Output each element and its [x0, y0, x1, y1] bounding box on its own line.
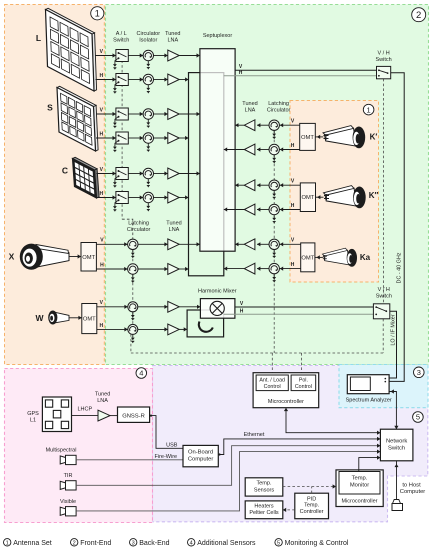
tuned LNA C-V: [168, 168, 179, 179]
svg-text:A / L: A / L: [116, 31, 127, 37]
tuned LNA Ka-V: [244, 239, 255, 250]
svg-text:4: 4: [190, 540, 193, 546]
tuned LNA S-V: [168, 109, 179, 120]
OMT Ka: [301, 243, 315, 272]
tuned LNA Ka-H: [244, 263, 255, 274]
svg-text:4: 4: [139, 369, 143, 378]
tuned LNA W-V: [168, 301, 179, 312]
wire switch to circulator L-H: [128, 79, 143, 81]
wire circulator to LNA W-V: [138, 306, 168, 308]
svg-text:Computer: Computer: [188, 457, 214, 463]
svg-text:LO / IF Mixer: LO / IF Mixer: [391, 314, 397, 345]
svg-text:PID: PID: [307, 496, 316, 502]
svg-text:Latching: Latching: [128, 221, 149, 227]
tuned LNA L-V: [168, 50, 179, 61]
wire antenna to switch L-V: [95, 55, 116, 57]
svg-text:Network: Network: [386, 439, 407, 445]
svg-text:Circulator: Circulator: [127, 227, 151, 233]
wire GPS to LNA: [72, 415, 99, 417]
latching circulator Ka-V: [269, 239, 279, 249]
wire circulator to LNA X-H: [138, 268, 168, 270]
wire circulator to OMT Ka-H: [279, 268, 300, 270]
svg-text:K′: K′: [370, 133, 378, 142]
wire switch to circulator C-H: [128, 197, 143, 199]
wire circulator to LNA S-V: [154, 113, 168, 115]
badge 3 back-end: [414, 367, 425, 378]
A/L switch L-H: [116, 74, 128, 86]
wire TIR to network switch: [76, 446, 380, 486]
region 3 Back-End (blue): [339, 365, 428, 408]
tuned LNA K2-V: [244, 180, 255, 191]
wire spectrum analyzer to network switch: [389, 392, 396, 430]
svg-text:LNA: LNA: [97, 398, 108, 404]
tuned LNA K1-V: [244, 120, 255, 131]
svg-text:V / H: V / H: [377, 51, 389, 57]
wire V/H switch to LO/IF line: [389, 311, 396, 378]
wire circulator to OMT K2-V: [279, 184, 300, 186]
control drop to Pol Control (dashed): [301, 353, 303, 374]
wire OMT to horn K2: [316, 196, 324, 198]
svg-text:Sensors: Sensors: [254, 487, 274, 493]
wire OMT to circulator X-H: [96, 268, 127, 270]
svg-text:Antenna Set: Antenna Set: [13, 540, 52, 547]
latching circulator X-H: [128, 264, 138, 274]
tuned LNA X-V: [168, 239, 179, 250]
antenna array C: [95, 169, 100, 198]
svg-text:H: H: [100, 262, 104, 268]
svg-text:5: 5: [277, 540, 280, 546]
svg-text:GPS: GPS: [27, 411, 39, 417]
wire LNA to mixer W-H: [179, 328, 187, 330]
tuned LNA L-H: [168, 74, 179, 85]
tuned LNA X-H: [168, 264, 179, 275]
svg-text:Septuplexor: Septuplexor: [203, 33, 233, 39]
svg-text:3: 3: [417, 368, 421, 377]
wire switch to circulator C-V: [128, 173, 143, 175]
wire antenna to switch L-H: [96, 79, 116, 81]
OMT K2: [300, 183, 315, 212]
circulator isolator C-H: [143, 192, 153, 202]
latching circulator control line K-band (dashed): [273, 125, 275, 353]
wire LNA to septuplexor L-V: [179, 55, 200, 57]
septuplexor back box (H): [189, 73, 224, 276]
svg-text:Switch: Switch: [388, 446, 405, 452]
latching circulator K2-H: [269, 204, 279, 214]
svg-text:Back-End: Back-End: [139, 540, 169, 547]
horn antenna X: [37, 247, 69, 268]
wire mixer H output: [224, 313, 374, 315]
wire LNA to circulator K1-H: [257, 149, 269, 151]
svg-text:Temp.: Temp.: [257, 481, 272, 487]
wire septuplexor V output: [235, 69, 376, 71]
wire antenna to switch S-V: [97, 113, 116, 115]
latching circulator X-V: [128, 239, 138, 249]
svg-text:H: H: [99, 73, 103, 79]
wire microcontroller to network switch: [286, 408, 380, 433]
legend 5 Monitoring and Control: [275, 539, 282, 546]
Pol Control box: [291, 375, 316, 391]
svg-text:H: H: [99, 323, 103, 329]
wire circulator to OMT Ka-V: [279, 243, 300, 245]
svg-text:Temp.: Temp.: [352, 476, 368, 482]
camera TIR: [66, 481, 77, 490]
wire LNA to circulator K1-V: [257, 124, 269, 126]
svg-text:GNSS-R: GNSS-R: [122, 414, 145, 420]
svg-text:H: H: [99, 191, 103, 197]
wire circulator to LNA W-H: [138, 328, 168, 330]
svg-text:Isolator: Isolator: [139, 37, 157, 43]
circulator isolator S-V: [143, 109, 153, 119]
latching circulator W-V: [128, 302, 138, 312]
V/H switch control line (dashed): [382, 79, 384, 304]
tuned LNA S-H: [168, 133, 179, 144]
latching circulator W-H: [128, 324, 138, 334]
tuned LNA W-H: [168, 324, 179, 335]
PID temp controller box: [295, 493, 329, 519]
microcontroller antenna/pol box: [253, 373, 319, 408]
wire LNA to circulator Ka-H: [257, 268, 269, 270]
wire LNA to mixer W-V: [179, 306, 200, 308]
wire W horn to OMT: [69, 317, 82, 319]
wire temp sensors to microcontroller (dashed): [283, 486, 336, 488]
on-board computer: [183, 445, 218, 466]
svg-text:Tuned: Tuned: [165, 31, 180, 37]
svg-text:Heaters: Heaters: [254, 504, 274, 510]
svg-text:Microcontroller: Microcontroller: [268, 399, 304, 405]
svg-text:Ant. / Load: Ant. / Load: [259, 377, 285, 383]
svg-text:Fire-Wire: Fire-Wire: [154, 454, 177, 460]
latching circulator K2-V: [269, 180, 279, 190]
legend 3 Back-End: [130, 539, 137, 546]
svg-text:3: 3: [132, 540, 135, 546]
svg-text:Monitor: Monitor: [350, 483, 369, 489]
V/H switch top: [377, 66, 391, 78]
Ant/Load Control box: [256, 375, 288, 391]
svg-text:2: 2: [416, 10, 421, 21]
antenna array S: [94, 105, 99, 151]
wire LNA to septuplexor C-H: [179, 197, 188, 199]
control bus (dashed): [131, 352, 383, 354]
A/L switch S-V: [116, 108, 128, 120]
wire LNA to GNSS-R: [109, 415, 118, 417]
svg-text:OMT: OMT: [83, 317, 96, 323]
wire LNA to septuplexor S-H: [179, 137, 188, 139]
svg-text:to Host: to Host: [402, 483, 421, 489]
svg-text:OMT: OMT: [301, 195, 314, 201]
region 5 Monitoring and Control (lavender): [153, 366, 428, 522]
wire OMT to horn Ka: [315, 256, 323, 258]
svg-text:L: L: [36, 33, 41, 43]
svg-text:5: 5: [416, 413, 420, 422]
wire Visible to network switch: [76, 452, 380, 511]
wire circulator to LNA L-V: [154, 55, 168, 57]
camera Visible: [66, 507, 77, 516]
region 2 Front-End (green): [106, 5, 429, 365]
wire OMT to horn K1: [315, 136, 323, 138]
svg-text:H: H: [291, 143, 295, 149]
badge 4 additional sensors: [136, 368, 147, 379]
wire circulator to LNA L-H: [154, 79, 168, 81]
wire temp monitor to network switch: [359, 458, 381, 472]
svg-text:On-Board: On-Board: [188, 450, 213, 456]
wire V/H switch to DC-40GHz line: [389, 73, 404, 382]
svg-text:Spectrum Analyzer: Spectrum Analyzer: [346, 398, 392, 404]
region 1 Antenna Set (orange): [5, 5, 106, 365]
wire switch to circulator S-V: [128, 113, 143, 115]
svg-text:H: H: [291, 262, 295, 268]
svg-text:USB: USB: [166, 443, 178, 449]
network switch: [380, 429, 413, 461]
wire circulator to OMT K1-H: [279, 149, 299, 151]
wire circulator to LNA S-H: [154, 137, 168, 139]
mixer symbol: [210, 301, 224, 315]
harmonic mixer waveguide bend: [199, 322, 213, 332]
wire LNA to septuplexor L-H: [179, 79, 188, 81]
wire antenna to switch S-H: [96, 137, 116, 139]
svg-text:W: W: [35, 313, 44, 323]
svg-text:Harmonic Mixer: Harmonic Mixer: [198, 288, 237, 294]
svg-text:Computer: Computer: [400, 489, 426, 495]
badge 2 front-end: [412, 8, 426, 22]
wire switch to circulator S-H: [128, 137, 143, 139]
temp monitor microcontroller box: [336, 470, 383, 507]
circulator isolator S-H: [143, 133, 153, 143]
tuned LNA GPS: [98, 410, 110, 421]
wire PID controller to heaters (dashed): [283, 509, 295, 511]
svg-text:Control: Control: [295, 384, 312, 390]
svg-text:2: 2: [73, 540, 76, 546]
svg-text:LNA: LNA: [167, 37, 178, 43]
svg-text:LNA: LNA: [169, 227, 180, 233]
tuned LNA K1-H: [244, 144, 255, 155]
A/L switch S-H: [116, 132, 128, 144]
wire LNA to septuplexor X-V: [179, 243, 200, 245]
wire septuplexor H output: [224, 75, 377, 77]
wire LNA to septuplexor X-H: [179, 268, 188, 270]
svg-text:Switch: Switch: [376, 293, 392, 299]
wire septuplexor to LNA K1-V: [235, 124, 244, 126]
svg-text:OMT: OMT: [301, 135, 314, 141]
svg-text:Control: Control: [264, 384, 281, 390]
wire mixer V output: [235, 306, 374, 308]
svg-text:Microcontroller: Microcontroller: [341, 499, 377, 505]
A/L switch control line (dashed): [121, 56, 123, 220]
wire circulator to LNA C-V: [154, 173, 168, 175]
tuned LNA K2-H: [244, 204, 255, 215]
svg-text:S: S: [47, 103, 53, 113]
control drop to Ant/Load Control (dashed): [271, 353, 273, 374]
svg-text:Latching: Latching: [268, 101, 289, 107]
wire antenna to switch C-V: [97, 173, 116, 175]
wire circulator to OMT K2-H: [279, 209, 300, 211]
wire circulator to OMT K1-V: [279, 124, 299, 126]
svg-text:K″: K″: [369, 191, 379, 200]
wire septuplexor to LNA Ka-V: [235, 243, 244, 245]
svg-text:Peltier Cells: Peltier Cells: [249, 510, 279, 516]
svg-text:Circulator: Circulator: [137, 31, 161, 37]
svg-text:Multispectral: Multispectral: [46, 447, 77, 453]
wire multispectral to on-board computer (Fire-Wire): [76, 459, 183, 461]
svg-text:C: C: [62, 166, 68, 176]
svg-text:Tuned: Tuned: [95, 392, 110, 398]
wire switch to circulator L-V: [128, 55, 143, 57]
wire circulator to LNA X-V: [138, 243, 168, 245]
wire OMT to circulator W-V: [97, 306, 128, 308]
wire LNA to septuplexor C-V: [179, 173, 200, 175]
svg-text:OMT: OMT: [82, 255, 95, 261]
svg-text:DC - 40 GHz: DC - 40 GHz: [396, 252, 402, 283]
wire LNA to septuplexor S-V: [179, 113, 200, 115]
camera multispectral: [66, 455, 77, 464]
svg-text:Additional Sensors: Additional Sensors: [197, 540, 256, 547]
horn antenna W: [55, 312, 69, 323]
V/H switch bottom: [373, 304, 389, 319]
tuned LNA C-H: [168, 192, 179, 203]
latching circulator K1-V: [269, 120, 279, 130]
svg-text:H: H: [239, 70, 243, 76]
wire network switch to host computer: [396, 461, 398, 500]
svg-text:Tuned: Tuned: [166, 221, 181, 227]
A/L switch C-H: [116, 192, 128, 204]
wire septuplexor to LNA Ka-H: [224, 268, 245, 270]
legend 2 Front-End: [71, 539, 78, 546]
septuplexor front box (V): [200, 49, 235, 252]
host computer connector: [393, 500, 401, 504]
latching circulator control line X/W (dashed): [132, 244, 134, 329]
wire X horn to OMT: [70, 256, 82, 258]
svg-text:Front-End: Front-End: [80, 540, 111, 547]
svg-text:OMT: OMT: [301, 255, 314, 261]
svg-text:Controller: Controller: [300, 509, 324, 515]
legend 1 Antenna Set: [3, 539, 10, 546]
wire LNA to circulator Ka-V: [257, 243, 269, 245]
svg-text:Switch: Switch: [375, 57, 391, 63]
svg-text:Monitoring & Control: Monitoring & Control: [285, 540, 349, 547]
spectrum analyzer: [347, 375, 389, 394]
svg-text:Ka: Ka: [360, 253, 371, 262]
A/L switch L-V: [116, 50, 128, 62]
wire OMT to circulator X-V: [96, 243, 127, 245]
wire septuplexor to LNA K2-H: [224, 209, 245, 211]
svg-text:Pol.: Pol.: [299, 377, 308, 383]
A/L switch C-V: [116, 168, 128, 180]
harmonic mixer back box: [187, 310, 224, 337]
temp sensors box: [245, 478, 283, 496]
horn antenna K-second: [324, 186, 366, 209]
region 4 Additional Sensors (pink): [5, 369, 153, 523]
antenna array L: [92, 33, 97, 91]
region 1b K-band antenna subset (orange): [290, 101, 379, 283]
svg-text:TIR: TIR: [64, 473, 73, 479]
svg-text:Circulator: Circulator: [267, 108, 291, 114]
harmonic mixer front box: [200, 299, 235, 319]
wire PID controller tap (dashed): [311, 487, 313, 494]
OMT K1: [300, 123, 316, 150]
wire ethernet OBC to network switch: [218, 439, 380, 455]
circulator isolator L-V: [143, 50, 153, 60]
wire septuplexor to LNA K1-H: [224, 149, 245, 151]
wire antenna to switch C-H: [97, 197, 116, 199]
svg-text:1: 1: [6, 540, 9, 546]
badge 5 monitoring and control: [413, 412, 424, 423]
badge 1 K-band subset: [363, 104, 374, 115]
temp monitor box: [339, 472, 380, 495]
legend 4 Additional Sensors: [188, 539, 195, 546]
OMT W: [82, 304, 97, 334]
svg-text:Ethernet: Ethernet: [244, 432, 265, 438]
latching circulator Ka-H: [269, 263, 279, 273]
svg-text:Switch: Switch: [113, 37, 129, 43]
svg-text:H: H: [291, 203, 295, 209]
wire OMT to circulator W-H: [97, 328, 128, 330]
wire circulator to LNA C-H: [154, 197, 168, 199]
circulator isolator L-H: [143, 74, 153, 84]
wire LNA to circulator K2-H: [257, 209, 269, 211]
svg-text:LNA: LNA: [245, 108, 256, 114]
badge 1 antenna set: [91, 7, 104, 20]
svg-text:Temp.: Temp.: [304, 503, 319, 509]
heaters peltier cells box: [245, 501, 283, 519]
svg-text:H: H: [240, 308, 244, 314]
svg-text:1: 1: [367, 105, 371, 114]
wire LNA to circulator K2-V: [257, 184, 269, 186]
svg-text:V / H: V / H: [378, 287, 390, 293]
GPS patch antenna: [42, 397, 71, 432]
svg-text:Tuned: Tuned: [242, 101, 257, 107]
GNSS-R receiver: [118, 407, 150, 422]
circulator isolator C-V: [143, 168, 153, 178]
svg-text:L1: L1: [30, 418, 36, 424]
svg-text:LHCP: LHCP: [77, 407, 92, 413]
svg-text:Visible: Visible: [60, 499, 76, 505]
OMT X: [81, 243, 96, 272]
horn antenna Ka: [322, 248, 357, 267]
wire septuplexor to LNA K2-V: [235, 184, 244, 186]
svg-text:1: 1: [95, 9, 100, 19]
svg-text:X: X: [9, 252, 15, 262]
wire GNSS-R to on-board computer (USB): [150, 416, 183, 449]
latching circulator K1-H: [269, 144, 279, 154]
svg-text:H: H: [99, 131, 103, 137]
horn antenna K-prime: [323, 126, 365, 149]
